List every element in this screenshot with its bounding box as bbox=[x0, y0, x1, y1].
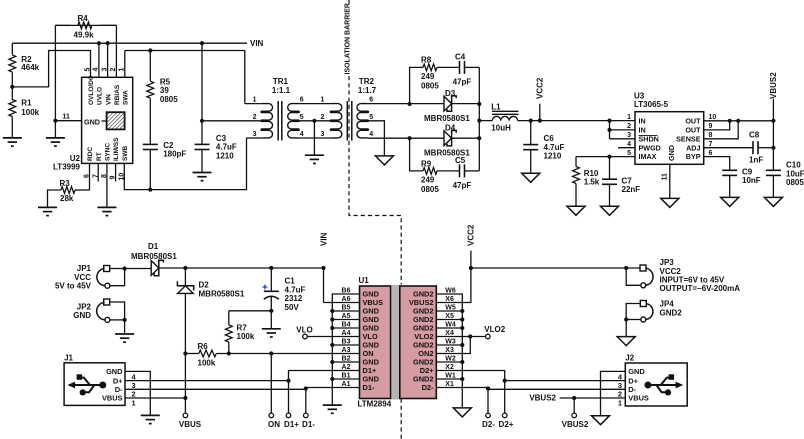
svg-text:VCC: VCC bbox=[74, 273, 91, 282]
wire TR1 pin3 bbox=[247, 131, 262, 138]
svg-text:B6: B6 bbox=[342, 288, 351, 295]
svg-text:A2: A2 bbox=[342, 364, 351, 371]
svg-text:GND: GND bbox=[628, 367, 645, 376]
svg-text:OUTPUT=−6V-200mA: OUTPUT=−6V-200mA bbox=[660, 284, 741, 293]
svg-text:4: 4 bbox=[300, 131, 304, 138]
ground JP2 bbox=[115, 320, 134, 342]
U3 GND rotated bbox=[667, 145, 676, 161]
svg-text:A3: A3 bbox=[342, 347, 351, 354]
resistor R4 bbox=[55, 14, 116, 40]
svg-text:SENSE: SENSE bbox=[676, 134, 701, 143]
svg-text:D3: D3 bbox=[445, 89, 456, 98]
svg-text:5: 5 bbox=[627, 150, 631, 157]
wire D2- to J2 bbox=[488, 388, 625, 390]
svg-text:D2+: D2+ bbox=[499, 420, 514, 429]
svg-text:49.9k: 49.9k bbox=[74, 31, 95, 40]
resistor R6 labels bbox=[198, 342, 216, 368]
svg-text:C5: C5 bbox=[455, 156, 466, 165]
wire SWA net to TR1 pin1 bbox=[125, 51, 245, 104]
svg-text:RBIAS: RBIAS bbox=[114, 84, 121, 105]
transformer TR2 primary winding bbox=[330, 104, 341, 138]
svg-text:100k: 100k bbox=[198, 358, 216, 367]
U2 top pin numbers bbox=[84, 68, 125, 72]
capacitor C6 bbox=[523, 121, 564, 174]
wire VIN to TR1 pin2 bbox=[200, 41, 204, 123]
svg-text:C7: C7 bbox=[622, 176, 633, 185]
svg-text:R3: R3 bbox=[60, 179, 71, 188]
svg-text:D1-: D1- bbox=[302, 420, 315, 429]
transformer TR2 label bbox=[358, 77, 377, 95]
wire TR1 pin6 to TR2 pin1 bbox=[299, 97, 332, 104]
wire X1 D2- bbox=[436, 386, 490, 413]
U2 designator bbox=[53, 154, 81, 171]
wire VIN pin3 to VIN bbox=[106, 41, 110, 77]
wire rail to D1 bbox=[125, 268, 152, 270]
svg-text:J1: J1 bbox=[64, 354, 73, 363]
svg-text:7: 7 bbox=[709, 141, 713, 148]
svg-text:ON: ON bbox=[268, 420, 280, 429]
wire ON net bbox=[183, 350, 359, 357]
diode D2 MBR0580S1 bbox=[177, 268, 244, 298]
svg-text:VCC2: VCC2 bbox=[467, 224, 476, 246]
op-amp U3 LT3065-5 box bbox=[635, 112, 704, 165]
node VIN riser to U1 VBUS bbox=[319, 232, 359, 302]
svg-text:A5: A5 bbox=[342, 313, 351, 320]
svg-text:D-: D- bbox=[628, 385, 636, 394]
svg-text:4: 4 bbox=[627, 141, 631, 148]
svg-text:5: 5 bbox=[300, 114, 304, 121]
isolation barrier dashed line bbox=[349, 0, 401, 439]
U1 pin labels bbox=[342, 288, 456, 393]
wire J1 D+ pin3 bbox=[125, 380, 289, 382]
svg-text:LTM2894: LTM2894 bbox=[358, 400, 392, 409]
svg-text:J2: J2 bbox=[625, 354, 634, 363]
node VCC2 tap bbox=[538, 119, 542, 123]
ground center tap bbox=[305, 121, 324, 164]
wire divider tap to OVLO/DC bbox=[12, 51, 90, 87]
svg-text:11: 11 bbox=[63, 114, 71, 121]
ground U1 right bus bbox=[453, 408, 471, 417]
transformer TR2 secondary winding bbox=[357, 104, 368, 138]
svg-text:249: 249 bbox=[421, 176, 435, 185]
U2 bottom pin numbers bbox=[84, 173, 126, 181]
svg-text:1.5k: 1.5k bbox=[584, 178, 600, 187]
svg-text:OUT: OUT bbox=[685, 117, 701, 126]
wire TR1 pin4 to TR2 pin3 bbox=[299, 131, 332, 138]
ground TR2 pin5 bbox=[375, 156, 393, 165]
svg-text:1: 1 bbox=[253, 97, 257, 104]
wire ADJ pin7 to C8 bbox=[704, 147, 753, 149]
svg-text:0805: 0805 bbox=[421, 82, 439, 91]
wire D1 cathode rail bbox=[159, 266, 326, 270]
U2 top pin names bbox=[88, 75, 129, 105]
wire D2 anode down bbox=[184, 293, 186, 398]
node D4 anode bbox=[408, 136, 412, 140]
wire A1 D1- net bbox=[304, 386, 360, 390]
svg-text:VCC2: VCC2 bbox=[660, 267, 682, 276]
wire TR2 pin4 bbox=[368, 131, 444, 138]
node D3 cathode bbox=[477, 102, 481, 106]
J2 pin numbers bbox=[618, 372, 623, 407]
svg-text:GND: GND bbox=[73, 311, 91, 320]
svg-text:VBUS2: VBUS2 bbox=[529, 393, 556, 402]
transformer TR1 primary winding bbox=[261, 104, 272, 138]
node U3 input junction bbox=[607, 119, 611, 123]
diode D3 MBR0580S1 bbox=[424, 89, 479, 123]
transformer TR1 label bbox=[272, 77, 291, 95]
wire TR1 pin1 bbox=[245, 97, 262, 104]
svg-text:1: 1 bbox=[627, 114, 631, 121]
svg-text:VBUS: VBUS bbox=[179, 420, 202, 429]
svg-text:BYP: BYP bbox=[686, 152, 701, 161]
ground U1 left bus bbox=[323, 405, 342, 413]
connector J1 box bbox=[64, 354, 125, 406]
svg-text:1:1.7: 1:1.7 bbox=[358, 86, 377, 95]
svg-text:10nF: 10nF bbox=[742, 176, 761, 185]
wire UVLO pin4 to VIN bbox=[97, 41, 101, 77]
test point VBUS bbox=[179, 398, 202, 429]
svg-text:249: 249 bbox=[421, 72, 435, 81]
node JP1 junction bbox=[123, 266, 127, 270]
svg-text:2312: 2312 bbox=[285, 294, 303, 303]
svg-text:C6: C6 bbox=[544, 134, 555, 143]
capacitor C7 bbox=[602, 157, 640, 207]
wire U3 pin11 GND bbox=[662, 164, 670, 198]
svg-text:1210: 1210 bbox=[216, 152, 234, 161]
capacitor C4 bbox=[453, 52, 480, 104]
ground R3 bbox=[38, 207, 57, 215]
svg-text:2: 2 bbox=[320, 114, 324, 121]
svg-text:B5: B5 bbox=[342, 305, 351, 312]
svg-text:47pF: 47pF bbox=[453, 181, 472, 190]
svg-text:OUT: OUT bbox=[685, 126, 701, 135]
svg-text:1: 1 bbox=[320, 97, 324, 104]
svg-text:0805: 0805 bbox=[786, 178, 804, 187]
test point VLO bbox=[296, 325, 359, 338]
isolation barrier label bbox=[345, 3, 352, 74]
svg-text:5V to 45V: 5V to 45V bbox=[55, 282, 92, 291]
svg-text:MBR0580S1: MBR0580S1 bbox=[424, 114, 470, 123]
resistor R10 bbox=[573, 157, 600, 207]
wire BYP pin6 to C9 bbox=[704, 157, 730, 171]
svg-text:IN: IN bbox=[639, 126, 646, 135]
svg-text:1210: 1210 bbox=[544, 152, 562, 161]
svg-text:22nF: 22nF bbox=[622, 185, 641, 194]
svg-text:JP2: JP2 bbox=[77, 302, 92, 311]
ground U2 pin11 bbox=[46, 121, 65, 146]
svg-text:JP3: JP3 bbox=[660, 258, 675, 267]
op-amp U1 LTM2894 module bbox=[358, 276, 437, 408]
ground C9 bbox=[721, 197, 739, 206]
svg-text:D-: D- bbox=[115, 385, 123, 394]
resistor R1 bbox=[9, 87, 40, 138]
svg-text:UVLO: UVLO bbox=[97, 87, 104, 105]
svg-text:LT3999: LT3999 bbox=[53, 162, 81, 171]
svg-text:R9: R9 bbox=[421, 159, 432, 168]
wire J2 GND pin4 bbox=[601, 371, 626, 415]
svg-text:C9: C9 bbox=[742, 167, 753, 176]
svg-text:RT: RT bbox=[96, 152, 103, 161]
J1 pin numbers bbox=[132, 372, 137, 407]
wire X3 ON2 tie bbox=[436, 337, 470, 354]
svg-text:U1: U1 bbox=[359, 276, 370, 285]
svg-text:R7: R7 bbox=[237, 323, 248, 332]
jumper JP4 bbox=[624, 300, 682, 322]
svg-text:D1+: D1+ bbox=[284, 420, 299, 429]
svg-text:INPUT=6V to 45V: INPUT=6V to 45V bbox=[660, 276, 725, 285]
svg-text:C2: C2 bbox=[163, 141, 174, 150]
svg-text:PWGD: PWGD bbox=[639, 143, 661, 152]
capacitor C9 bbox=[722, 167, 761, 197]
svg-text:C8: C8 bbox=[749, 130, 760, 139]
U2 GND hatch pad bbox=[84, 112, 125, 129]
J2 pin texts bbox=[628, 367, 649, 403]
svg-text:1: 1 bbox=[132, 398, 136, 407]
node D3 anode bbox=[408, 102, 412, 106]
svg-text:50V: 50V bbox=[285, 303, 300, 312]
U3 left pin numbers bbox=[627, 114, 631, 157]
ground J2 bbox=[592, 416, 610, 425]
svg-text:3: 3 bbox=[627, 132, 631, 139]
svg-text:5: 5 bbox=[369, 114, 373, 121]
transformer TR1 core bbox=[278, 101, 282, 141]
capacitor C1 polarized bbox=[262, 268, 305, 329]
wire R4 right leg to RBIAS pin2 bbox=[115, 25, 117, 77]
wire VIN rail top-left bbox=[12, 42, 247, 44]
svg-text:VBUS2: VBUS2 bbox=[562, 420, 589, 429]
svg-text:10: 10 bbox=[709, 114, 717, 121]
resistor R7 bbox=[225, 311, 271, 354]
transformer TR1 secondary winding bbox=[288, 104, 299, 138]
svg-text:D+: D+ bbox=[628, 376, 638, 385]
node JP2 junction bbox=[123, 318, 127, 322]
svg-text:R10: R10 bbox=[584, 169, 599, 178]
capacitor C5 bbox=[453, 138, 480, 190]
svg-text:4: 4 bbox=[369, 131, 373, 138]
svg-text:LT3065-5: LT3065-5 bbox=[634, 100, 669, 109]
svg-text:VCC2: VCC2 bbox=[536, 77, 545, 99]
svg-text:SWB: SWB bbox=[122, 146, 129, 161]
svg-text:9: 9 bbox=[709, 123, 713, 130]
svg-text:C1: C1 bbox=[285, 277, 296, 286]
U3 left pin texts bbox=[639, 117, 661, 162]
wire RT pin7 bbox=[97, 163, 99, 181]
svg-text:D1: D1 bbox=[148, 242, 159, 251]
node D4 cathode bbox=[477, 136, 481, 140]
wire OUT pin10 rail bbox=[704, 119, 774, 123]
svg-text:JP4: JP4 bbox=[660, 300, 675, 309]
svg-text:B2: B2 bbox=[342, 356, 351, 363]
ground C3 bbox=[193, 173, 212, 181]
pin 11 U2 GND wire bbox=[53, 114, 81, 123]
svg-text:3: 3 bbox=[320, 131, 324, 138]
svg-text:A1: A1 bbox=[342, 381, 351, 388]
svg-text:ILIM/SS: ILIM/SS bbox=[113, 137, 120, 161]
svg-text:GND: GND bbox=[84, 118, 100, 127]
test point VBUS2 bbox=[562, 398, 589, 429]
capacitor C10 bbox=[766, 161, 804, 198]
svg-text:VBUS: VBUS bbox=[102, 394, 123, 403]
capacitor C8 bbox=[749, 130, 773, 164]
wire J1 GND pin4 bbox=[125, 371, 150, 415]
test point D2- bbox=[482, 413, 495, 429]
svg-text:VBUS: VBUS bbox=[628, 394, 649, 403]
wire PWGD stub bbox=[618, 147, 635, 149]
svg-text:MBR0580S1: MBR0580S1 bbox=[199, 289, 245, 298]
svg-text:IMAX: IMAX bbox=[639, 152, 657, 161]
ground C1 bbox=[262, 329, 281, 337]
wire X6 VBUS2 riser bbox=[436, 268, 471, 303]
svg-text:R6: R6 bbox=[198, 342, 209, 351]
wire R4 left leg to GND node bbox=[54, 25, 56, 120]
svg-text:1nF: 1nF bbox=[749, 155, 763, 164]
svg-text:RDC: RDC bbox=[87, 147, 94, 161]
svg-text:D+: D+ bbox=[113, 376, 123, 385]
svg-text:C10: C10 bbox=[786, 161, 801, 170]
svg-text:VBUS2: VBUS2 bbox=[769, 72, 778, 99]
svg-text:D2-: D2- bbox=[482, 420, 495, 429]
test point VLO2 bbox=[484, 325, 505, 339]
svg-text:L1: L1 bbox=[491, 102, 501, 111]
node C6 tap bbox=[529, 119, 533, 123]
svg-text:100k: 100k bbox=[21, 108, 39, 117]
wire U1 right GND2 bus bbox=[436, 294, 464, 408]
svg-text:GND: GND bbox=[106, 367, 123, 376]
resistor R2 bbox=[9, 43, 40, 87]
svg-text:D2: D2 bbox=[199, 281, 210, 290]
svg-text:B1: B1 bbox=[342, 373, 351, 380]
wire OUT pin9 bbox=[704, 121, 730, 130]
svg-text:VIN: VIN bbox=[319, 232, 328, 246]
svg-text:0805: 0805 bbox=[160, 95, 178, 104]
svg-text:39: 39 bbox=[160, 86, 169, 95]
svg-text:4.7uF: 4.7uF bbox=[216, 143, 237, 152]
J1 pin texts bbox=[102, 367, 123, 403]
svg-text:GND2: GND2 bbox=[660, 308, 683, 317]
node C1-R7 junction bbox=[269, 309, 273, 313]
ground C6 bbox=[522, 173, 540, 182]
svg-text:R4: R4 bbox=[78, 14, 89, 23]
svg-text:5: 5 bbox=[84, 68, 91, 72]
svg-text:3: 3 bbox=[101, 68, 108, 72]
transformer TR2 core bbox=[347, 101, 352, 141]
ground C7 bbox=[601, 206, 619, 215]
svg-text:8: 8 bbox=[709, 132, 713, 139]
node R2-R1 junction bbox=[10, 85, 14, 89]
jumper JP2 bbox=[73, 299, 124, 322]
svg-text:SWA: SWA bbox=[123, 90, 130, 105]
connector J2 box bbox=[625, 354, 687, 406]
svg-text:6: 6 bbox=[709, 150, 713, 157]
ground U3 pin11 bbox=[661, 198, 679, 207]
ground JP4 bbox=[617, 320, 635, 346]
resistor R3 bbox=[48, 179, 90, 207]
J1 USB icon bbox=[68, 374, 107, 395]
ground C10 bbox=[764, 197, 782, 206]
op-amp U2 LT3999 box bbox=[82, 77, 133, 163]
svg-text:100k: 100k bbox=[237, 332, 255, 341]
svg-text:10uH: 10uH bbox=[491, 123, 511, 132]
wire J1 VBUS pin1 bbox=[125, 396, 187, 400]
wire rectifier output bbox=[477, 104, 481, 138]
test point D1- bbox=[302, 413, 315, 429]
U2 bottom pin names bbox=[87, 137, 129, 161]
wire SENSE pin8 bbox=[704, 121, 739, 139]
wire U3 pin2 pin3 tie bbox=[607, 121, 635, 139]
svg-text:ADJ: ADJ bbox=[686, 143, 700, 152]
wire SWB pin10 to TR1 pin3 bbox=[124, 138, 246, 190]
capacitor C3 bbox=[195, 121, 237, 173]
ground SYNC pin8 bbox=[97, 163, 116, 215]
wire X2 D2+ bbox=[436, 371, 507, 414]
jumper JP1 bbox=[55, 264, 125, 290]
svg-text:180pF: 180pF bbox=[163, 150, 186, 159]
node VBUS2 rail bbox=[769, 72, 778, 171]
svg-text:47pF: 47pF bbox=[453, 77, 472, 86]
svg-text:3: 3 bbox=[253, 131, 257, 138]
wire IMAX pin5 bbox=[576, 155, 635, 159]
resistor R5 bbox=[147, 48, 178, 144]
svg-text:6: 6 bbox=[369, 97, 373, 104]
svg-text:VLO2: VLO2 bbox=[484, 325, 505, 334]
wire J1 D- pin2 bbox=[125, 389, 306, 413]
wire U1 left GND bus bbox=[330, 294, 359, 405]
svg-text:VIN: VIN bbox=[105, 94, 112, 105]
svg-text:GND: GND bbox=[667, 145, 676, 161]
U3 designator bbox=[634, 92, 669, 110]
svg-text:D4: D4 bbox=[445, 123, 456, 132]
svg-text:OVLO/DC: OVLO/DC bbox=[88, 75, 95, 105]
svg-text:VIN: VIN bbox=[250, 39, 264, 48]
wire center tap bbox=[299, 114, 332, 123]
wire D2+ to J2 bbox=[505, 380, 626, 382]
svg-text:6: 6 bbox=[300, 97, 304, 104]
svg-text:10uF: 10uF bbox=[786, 169, 804, 178]
wire VCC2 rail right bbox=[471, 266, 640, 270]
svg-text:4.7uF: 4.7uF bbox=[544, 143, 565, 152]
svg-text:4.7uF: 4.7uF bbox=[285, 285, 306, 294]
test point D2+ bbox=[499, 413, 514, 429]
svg-text:A6: A6 bbox=[342, 296, 351, 303]
svg-text:1: 1 bbox=[618, 398, 622, 407]
wire TR1 pin2 bbox=[202, 114, 262, 121]
node VBUS2 label wire bbox=[529, 393, 625, 402]
svg-text:SYNC: SYNC bbox=[105, 143, 112, 161]
node VCC2 junction bbox=[469, 266, 473, 270]
node VIN label bbox=[250, 39, 264, 48]
wire TR2 pin5 to ground bbox=[368, 114, 385, 156]
wire SWA pin1 up bbox=[124, 51, 126, 78]
svg-text:C4: C4 bbox=[455, 52, 466, 61]
resistor R8 bbox=[410, 55, 460, 104]
svg-text:0805: 0805 bbox=[421, 185, 439, 194]
capacitor C2 bbox=[143, 141, 187, 192]
wire X4 VLO2 bbox=[436, 334, 485, 338]
resistor R9 bbox=[410, 138, 460, 194]
svg-text:B4: B4 bbox=[342, 322, 351, 329]
svg-text:2: 2 bbox=[627, 123, 631, 130]
svg-text:MBR0580S1: MBR0580S1 bbox=[131, 252, 177, 261]
wire A2 D1+ net bbox=[286, 371, 359, 383]
svg-text:R1: R1 bbox=[21, 99, 32, 108]
diode D4 MBR0580S1 bbox=[424, 123, 479, 157]
svg-text:R5: R5 bbox=[160, 77, 171, 86]
test point ON bbox=[268, 354, 280, 429]
node VCC2 top label bbox=[467, 224, 476, 268]
wire TR2 pin6 bbox=[368, 97, 444, 104]
J2 USB icon bbox=[644, 374, 683, 395]
svg-text:B3: B3 bbox=[342, 339, 351, 346]
